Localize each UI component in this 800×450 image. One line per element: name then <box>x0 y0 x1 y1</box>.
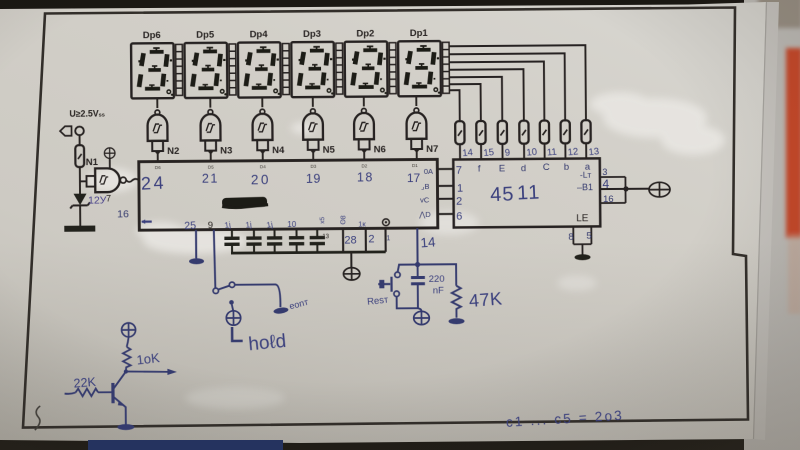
wire segment line from Dp1 to R6 <box>449 53 565 121</box>
switch S1 arm <box>218 286 229 290</box>
svg-text:d: d <box>521 163 526 174</box>
input arrow symbol <box>60 126 72 136</box>
input resistor R9 <box>75 145 84 167</box>
wire plus to N1 <box>109 158 111 168</box>
gate N1 body <box>95 168 120 192</box>
svg-text:18: 18 <box>357 170 374 184</box>
wire Dp1 cathode to gate N7 <box>415 97 417 106</box>
NAND driver gate N3 <box>200 109 232 156</box>
wire supply bracket vertical <box>624 177 626 203</box>
svg-text:14: 14 <box>420 234 437 250</box>
svg-text:10: 10 <box>287 220 297 229</box>
resistor R10 10K zigzag <box>123 347 131 371</box>
svg-text:Dp6: Dp6 <box>143 30 161 41</box>
7-segment display Dp6 <box>131 30 174 99</box>
svg-text:13: 13 <box>588 146 600 158</box>
wire reset bottom to cap bottom <box>397 296 418 308</box>
svg-text:N3: N3 <box>220 145 232 156</box>
U1 blackout scribble <box>222 197 267 208</box>
wire BCD D: U1 to 4511 <box>438 213 454 215</box>
svg-text:5: 5 <box>586 231 591 242</box>
svg-text:21: 21 <box>202 172 219 186</box>
input terminal circle <box>75 127 84 136</box>
wire gate N2 output to counter pin <box>157 151 159 161</box>
svg-text:vC: vC <box>420 195 430 204</box>
svg-text:D1: D1 <box>412 163 418 168</box>
wire U1 pin13 box <box>342 229 344 252</box>
plus supply terminal below C6 <box>414 311 430 324</box>
wire R1 to 4511 pin 14 <box>459 144 461 159</box>
7-segment display Dp5 <box>184 30 227 99</box>
svg-text:ʘ8: ʘ8 <box>340 215 347 225</box>
wire zener to ground <box>79 205 81 225</box>
plus terminal above 10K <box>122 323 136 337</box>
svg-text:-Lт: -Lт <box>580 170 592 180</box>
7-segment display Dp2 <box>345 28 388 97</box>
display pin ladder 1 <box>176 44 183 95</box>
wire terminal to R9 <box>79 135 81 145</box>
svg-text:1oK: 1oK <box>136 350 161 368</box>
wire R7 to 4511 pin 13 <box>585 143 587 158</box>
wire R5 to 4511 pin 11 <box>544 144 546 159</box>
decoder IC 4511 box <box>453 158 600 227</box>
U1 circle-dot indicator <box>383 219 390 226</box>
wire gate N4 output to counter pin <box>262 150 264 160</box>
wire U1 pin25 to ground <box>195 230 197 258</box>
reset button plunger <box>378 277 391 292</box>
ground blob below 4511 <box>575 254 591 260</box>
wire segment line from Dp1 to R7 <box>449 45 586 121</box>
N1 output bubble <box>120 177 126 183</box>
7-segment display Dp1 <box>398 28 441 97</box>
capacitor C3 <box>267 230 282 253</box>
NAND driver gate N2 <box>147 110 179 157</box>
wire 4511 pin8 down <box>572 227 574 245</box>
svg-text:9: 9 <box>208 220 213 231</box>
segment resistor R1 <box>455 121 464 144</box>
svg-text:11: 11 <box>517 181 542 204</box>
svg-text:f: f <box>478 164 481 175</box>
svg-text:11: 11 <box>546 147 557 159</box>
wire Dp6 cathode to gate N2 <box>156 99 158 108</box>
svg-text:hoℓd: hoℓd <box>247 331 287 355</box>
segment resistor R5 <box>540 120 549 143</box>
capacitor C6 220nF <box>417 265 419 309</box>
cont pad blob <box>273 307 289 315</box>
svg-text:N5: N5 <box>323 145 336 156</box>
segment resistor R4 <box>519 121 528 144</box>
reset button top contact <box>395 272 400 277</box>
svg-text:2: 2 <box>368 233 374 245</box>
U1 top pin printed labels D6..D1 <box>155 163 418 170</box>
wire collector node output arrow <box>126 371 169 372</box>
svg-text:14: 14 <box>462 147 474 159</box>
capacitor C1 <box>224 230 239 253</box>
wire gate N5 output to counter pin <box>312 150 314 160</box>
svg-text:N4: N4 <box>272 145 285 156</box>
plus terminal hold <box>226 311 241 326</box>
wire U1 pin1 box <box>384 228 386 251</box>
wire R3 to 4511 pin 9 <box>501 144 503 159</box>
NAND driver gate N4 <box>252 109 285 156</box>
switch S1 common contact <box>213 288 218 293</box>
hold terminal node dot <box>229 300 234 305</box>
ground blob pin25 <box>189 258 204 264</box>
wire 22K to input end <box>65 393 76 394</box>
ground blob under Q1 <box>117 424 134 430</box>
reset button bottom contact <box>394 291 399 296</box>
svg-text:47K: 47K <box>468 288 503 311</box>
display pin ladder 2 <box>229 44 236 95</box>
display pin ladder 5 <box>389 43 396 94</box>
wire BCD A: U1 to 4511 <box>437 168 453 170</box>
wire 4511 pin16 to supply bracket <box>600 202 625 204</box>
svg-text:7: 7 <box>106 193 111 203</box>
wire segment line from Dp1 to R5 <box>449 62 544 122</box>
wire R9 to node <box>79 167 81 193</box>
node: reset junction <box>415 262 420 267</box>
wire gate N6 output to counter pin <box>363 149 365 159</box>
wire base to 22K <box>98 391 113 393</box>
svg-text:2: 2 <box>456 196 462 208</box>
svg-text:b: b <box>564 162 569 173</box>
wire cont contact to pad <box>235 284 281 307</box>
U1 bottom small pin marks <box>224 215 367 230</box>
svg-text:12: 12 <box>567 146 579 158</box>
svg-text:24: 24 <box>141 173 167 194</box>
transistor Q1 collector <box>114 372 126 389</box>
wire bus to plus supply <box>350 252 352 267</box>
7-segment display Dp4 <box>238 29 281 98</box>
wire segment line from Dp1 to R1 <box>449 90 459 121</box>
svg-text:220: 220 <box>429 274 445 285</box>
svg-text:C: C <box>543 162 550 173</box>
switch S1 cont contact <box>229 282 234 287</box>
junction node at bracket <box>623 186 628 191</box>
svg-text:25: 25 <box>184 220 197 233</box>
wire segment line from Dp1 to R2 <box>449 84 480 121</box>
svg-text:D2: D2 <box>361 163 367 168</box>
transistor Q1 base bar <box>111 383 114 403</box>
wire plus to 10K <box>127 337 129 347</box>
wire BCD C: U1 to 4511 <box>438 198 454 200</box>
wire 4511 pin3 LT to supply bracket <box>600 176 625 178</box>
svg-text:16: 16 <box>117 208 129 220</box>
svg-text:6: 6 <box>456 211 462 223</box>
svg-text:Dp2: Dp2 <box>356 28 374 39</box>
svg-text:7: 7 <box>456 165 462 177</box>
wire gate N3 output to counter pin <box>210 151 212 161</box>
wire node to N1 input <box>80 180 86 182</box>
wire 4511 pin5 LE down <box>590 226 592 244</box>
svg-text:8: 8 <box>568 232 573 243</box>
wire 4511 pin4 BI to plus supply <box>600 188 649 190</box>
resistor R8 47K zigzag <box>452 286 461 318</box>
transistor Q1 emitter with arrow <box>114 397 126 425</box>
hold bracket mark <box>232 327 243 341</box>
wire R6 to 4511 pin 12 <box>564 143 566 158</box>
U1 bottom-left blue mark pin16 <box>142 221 152 223</box>
wire hold dot to plus <box>232 304 233 311</box>
wire Dp4 cathode to gate N4 <box>261 98 263 107</box>
svg-text:17: 17 <box>407 171 421 185</box>
svg-text:N6: N6 <box>374 144 386 155</box>
capacitor C5 <box>310 230 325 253</box>
wire segment line from Dp1 to R3 <box>449 77 502 121</box>
svg-text:12У: 12У <box>88 194 107 206</box>
wire Dp3 cathode to gate N5 <box>312 97 314 106</box>
wire Dp5 cathode to gate N3 <box>209 98 211 107</box>
wire BCD B: U1 to 4511 <box>437 185 453 187</box>
ground bar under zener <box>64 226 95 232</box>
svg-text:10: 10 <box>526 147 538 159</box>
svg-text:28: 28 <box>344 234 356 246</box>
wire cap bottom to plus terminal <box>418 308 422 311</box>
segment resistor R7 <box>581 120 590 143</box>
segment resistor R6 <box>561 120 570 143</box>
svg-text:D3: D3 <box>310 164 316 169</box>
svg-text:1к: 1к <box>358 219 366 228</box>
svg-text:13: 13 <box>322 234 329 240</box>
ground blob below 47K <box>449 318 465 324</box>
zener diode D1 12V <box>74 194 87 206</box>
wire to ground stem <box>581 244 583 254</box>
svg-text:0A: 0A <box>424 167 433 176</box>
7-segment display Dp3 <box>291 29 334 98</box>
svg-text:E: E <box>499 163 505 174</box>
svg-text:19: 19 <box>306 172 321 186</box>
svg-text:N7: N7 <box>426 144 438 155</box>
svg-text:15: 15 <box>483 147 495 159</box>
svg-text:N2: N2 <box>167 146 179 157</box>
wire junction to reset button top <box>398 265 418 272</box>
ground bus under capacitors <box>231 252 386 253</box>
svg-text:LΕ: LΕ <box>576 213 589 224</box>
capacitor C2 <box>246 230 261 253</box>
display pin ladder 3 <box>282 44 289 95</box>
svg-text:45: 45 <box>490 183 515 206</box>
wire segment line from Dp1 to R4 <box>449 69 524 121</box>
margin squiggle <box>35 406 41 430</box>
wire R2 to 4511 pin 15 <box>480 144 482 159</box>
wire gate N7 output to counter pin <box>416 149 418 159</box>
wire junction to 47K <box>418 264 457 286</box>
wire U1 pin2 box <box>365 229 367 252</box>
svg-text:nF: nF <box>433 285 444 296</box>
svg-text:Dp5: Dp5 <box>196 30 215 41</box>
svg-text:D4: D4 <box>260 164 266 169</box>
segment resistor R2 <box>476 121 485 144</box>
display pin ladder 4 <box>336 43 343 94</box>
svg-text:D6: D6 <box>155 165 161 170</box>
svg-text:Dp4: Dp4 <box>250 29 269 40</box>
wire Dp2 cathode to gate N6 <box>363 97 365 106</box>
plus supply terminal right of 4511 <box>649 182 670 197</box>
svg-text:1: 1 <box>457 183 463 195</box>
svg-text:⌟B: ⌟B <box>421 182 430 191</box>
svg-text:D5: D5 <box>208 165 214 170</box>
NAND driver gate N5 <box>303 109 336 156</box>
svg-text:22K: 22K <box>73 375 97 391</box>
resistor R11 22K zigzag <box>76 389 99 397</box>
svg-text:Dp3: Dp3 <box>303 29 321 40</box>
NAND driver gate N6 <box>354 108 386 155</box>
svg-text:N1: N1 <box>86 157 99 168</box>
collector node dot <box>124 369 128 373</box>
svg-text:Dp1: Dp1 <box>410 28 429 39</box>
svg-text:9: 9 <box>504 147 510 158</box>
capacitor C4 <box>289 230 304 253</box>
display pin ladder 6 <box>442 42 449 93</box>
segment resistor R3 <box>498 121 507 144</box>
NAND driver gate N7 <box>406 108 438 155</box>
svg-text:1ϳ: 1ϳ <box>245 220 252 230</box>
svg-text:3: 3 <box>602 167 607 177</box>
wire N1 output to U1 <box>126 179 139 182</box>
counter IC U1 box <box>139 159 438 230</box>
svg-text:–B1: –B1 <box>577 182 593 192</box>
svg-text:20: 20 <box>251 172 271 187</box>
wire U1 pin14 down to reset node <box>416 228 418 264</box>
wire U1 pin9 down to switch <box>214 230 216 288</box>
svg-text:x5: x5 <box>319 216 326 223</box>
svg-text:1: 1 <box>386 235 390 242</box>
svg-text:⋀D: ⋀D <box>418 210 431 219</box>
wire R4 to 4511 pin 10 <box>523 144 525 159</box>
wire joining pin8 and pin5 <box>573 243 591 245</box>
plus supply terminal above N1 <box>104 148 115 159</box>
plus supply terminal below bus <box>343 268 359 281</box>
